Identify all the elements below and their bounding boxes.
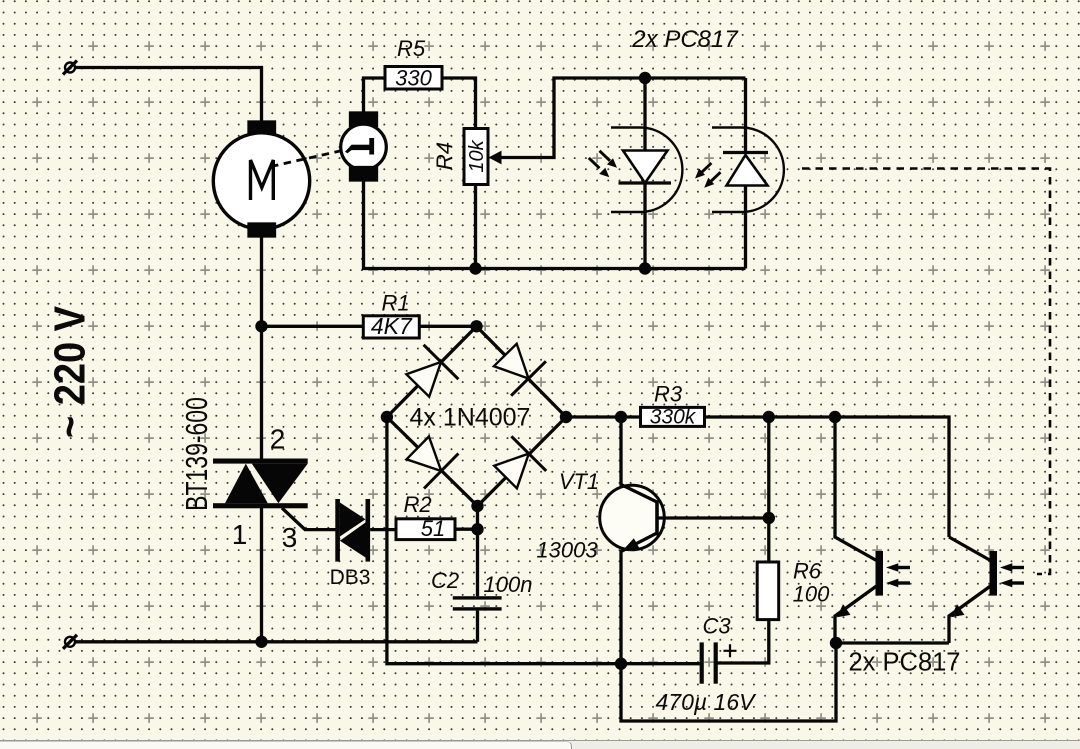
resistor R1 body <box>363 316 419 338</box>
node minus rail / VT1 emitter <box>615 658 627 670</box>
svg-text:100n: 100n <box>484 572 533 597</box>
wire bottom loop <box>621 643 836 721</box>
node opto emitters junction <box>830 637 842 649</box>
bridge diamond wires <box>387 326 566 506</box>
node top rail / opto1 anode <box>639 72 651 84</box>
node rail / VT1 collector <box>615 411 627 423</box>
wire R2 to C2 node <box>455 528 478 531</box>
transistor VT1 base wire <box>657 516 769 519</box>
svg-text:DB3: DB3 <box>330 566 371 589</box>
svg-text:VT1: VT1 <box>559 469 599 494</box>
wire R4 bottom <box>474 185 477 269</box>
svg-text:BT139-600: BT139-600 <box>180 397 214 511</box>
triac VS1 bottom bar <box>213 503 308 508</box>
wire bridge bottom to C2 <box>476 506 479 596</box>
wire C2 bottom to rail <box>476 611 479 642</box>
transistor VT1 collector <box>621 417 657 502</box>
diode D1 (top-left) <box>406 345 458 397</box>
diode D3 (bottom-left) <box>407 437 459 489</box>
node base wire / R6 top <box>763 512 775 524</box>
phototransistor U2T base bar <box>990 551 998 596</box>
wire bridge left node down to minus rail <box>387 417 700 664</box>
phototransistor U1T emitter <box>835 586 877 643</box>
tacho B1 top brush <box>351 113 377 126</box>
motor M1 letter M <box>251 160 274 200</box>
wire emitters join <box>836 641 949 644</box>
svg-text:330: 330 <box>395 66 432 91</box>
wire R5 to R4 top <box>442 78 476 129</box>
triac VS1 left triangle <box>225 464 268 504</box>
diode D4 (bottom-right) <box>494 436 546 488</box>
svg-text:R3: R3 <box>654 382 683 407</box>
svg-text:470µ 16V: 470µ 16V <box>656 689 758 715</box>
node motor/R1 junction <box>255 320 267 332</box>
transistor VT1 base bar <box>655 501 659 536</box>
capacitor C3 polarity plus <box>724 644 737 657</box>
motor M1 top brush <box>249 122 275 134</box>
triac VS1 top bar <box>213 459 308 464</box>
optocoupler U2 package arc <box>712 127 784 212</box>
wire top mains to motor <box>75 68 262 123</box>
resistor R6 body <box>757 562 779 620</box>
resistor R3 body <box>641 407 705 426</box>
svg-text:R4: R4 <box>432 142 457 170</box>
phototransistor U2T collector <box>949 537 991 561</box>
wire R6 bottom to C3 <box>718 620 769 663</box>
phototransistor U1T base bar <box>876 551 884 596</box>
node rail / R6 <box>763 411 775 423</box>
triac VS1 right triangle <box>252 464 308 504</box>
motor M1 bottom brush <box>249 224 275 236</box>
phototransistor U2T light arrows <box>1000 563 1024 587</box>
resistor R4 body (potentiometer) <box>464 129 488 185</box>
svg-text:51: 51 <box>421 516 445 541</box>
motor M1 body <box>213 133 309 229</box>
tacho B1 body <box>341 124 387 170</box>
diac VD5 lower triangle <box>340 523 366 558</box>
wire diac to R2 <box>370 528 396 531</box>
svg-text:4x 1N4007: 4x 1N4007 <box>410 404 531 432</box>
wire motor to bottom rail <box>260 236 263 459</box>
svg-text:R5: R5 <box>397 36 426 61</box>
capacitor C3 right plate <box>714 642 718 683</box>
capacitor C3 left plate <box>700 642 704 683</box>
svg-text:1: 1 <box>232 519 248 550</box>
resistor R2 body <box>396 519 455 540</box>
svg-text:10k: 10k <box>466 139 488 172</box>
svg-text:330k: 330k <box>650 406 697 429</box>
diac VD5 upper triangle <box>340 503 366 537</box>
svg-text:R6: R6 <box>793 559 822 584</box>
node rail / opto3 collector <box>829 411 841 423</box>
wire tacho bottom to opto bottom rail <box>364 180 746 269</box>
terminal X1 (top mains terminal) <box>63 61 77 75</box>
diac VD5 right bar <box>366 499 371 562</box>
capacitor C2 top plate <box>453 596 502 599</box>
diode D2 (top-right) <box>494 344 546 396</box>
svg-text:C3: C3 <box>702 614 731 639</box>
svg-text:2x PC817: 2x PC817 <box>631 26 739 53</box>
wire bridge right to R3 <box>566 415 641 418</box>
tacho B1 rotated digit 1 <box>345 138 374 155</box>
wire R3 to right rail <box>705 417 950 537</box>
svg-text:3: 3 <box>282 522 298 553</box>
wire bottom rail <box>75 640 478 643</box>
svg-text:2: 2 <box>270 424 286 455</box>
phototransistor U1T light arrows <box>886 563 910 587</box>
svg-text:~ 220 V: ~ 220 V <box>45 305 94 438</box>
node R2 / C2 / bridge bottom <box>471 523 483 535</box>
svg-text:13003: 13003 <box>536 538 598 563</box>
diac VD5 left bar <box>335 499 340 562</box>
wire tacho top to R5 <box>364 78 386 113</box>
node bottom-rail/triac junction <box>255 636 267 648</box>
capacitor C2 bottom plate <box>453 607 502 610</box>
triac VS1 gate wire <box>282 508 336 530</box>
svg-text:C2: C2 <box>431 568 459 593</box>
phototransistor U2T emitter <box>949 586 991 643</box>
wire R6 top <box>767 417 770 562</box>
node bridge top <box>470 320 482 332</box>
mechanical link motor-tacho (dashed) <box>271 151 340 167</box>
node bridge left <box>381 411 393 423</box>
optocoupler U2 light arrows <box>695 163 721 188</box>
svg-text:4K7: 4K7 <box>371 313 413 339</box>
potentiometer R4 wiper arrow <box>489 151 502 165</box>
transistor VT1 body <box>600 485 665 550</box>
triac VS1 main vertical wire <box>260 508 263 642</box>
svg-text:R1: R1 <box>381 291 409 316</box>
terminal X2 (bottom mains terminal) <box>63 635 77 649</box>
optocoupler U1 light arrows <box>589 151 617 178</box>
svg-text:R2: R2 <box>403 492 431 517</box>
node opto bottom rail / opto1 cathode <box>639 262 651 274</box>
svg-text:2x PC817: 2x PC817 <box>849 649 961 677</box>
optocoupler U2 LED (right, pointing up) <box>723 78 768 269</box>
wire wiper to top rail <box>501 78 746 158</box>
wire R1 to bridge top <box>419 325 476 328</box>
svg-text:100: 100 <box>793 582 830 607</box>
optocoupler U1 package arc <box>611 127 682 212</box>
transistor VT1 emitter <box>621 533 657 664</box>
node bridge right <box>560 411 572 423</box>
wire motor node to R1 <box>262 325 364 328</box>
node bridge bottom <box>471 500 483 512</box>
node opto bottom rail / R4 <box>469 262 481 274</box>
phototransistor U1T collector <box>835 417 877 561</box>
resistor R5 body <box>385 67 442 90</box>
tacho B1 bottom brush <box>351 168 377 181</box>
optical link dashed line <box>802 169 1050 575</box>
optocoupler U1 LED (left, pointing down) <box>619 78 672 269</box>
